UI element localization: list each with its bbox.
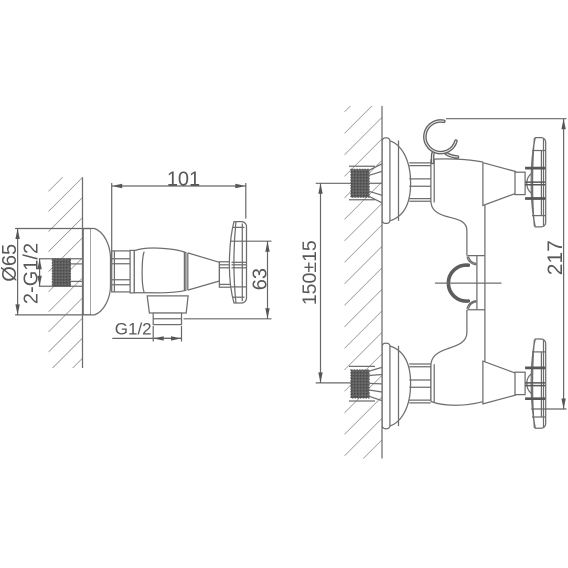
body/cone joint double line [184,253,187,291]
handle wheel (left view) [229,222,246,303]
union outline lines bottom [349,365,375,367]
top handle [483,138,546,227]
wall hatch (left view) [49,177,83,368]
body upper S-curve [431,201,467,256]
escutcheon cup line bottom [398,346,400,426]
dim G1/2 line with label leader [112,337,181,339]
dim O65 extension lines [15,228,91,230]
center boss top edge [468,255,485,257]
in-wall union top/bottom lines [39,258,83,260]
stem ribs top [409,162,430,164]
hook ring tube [425,121,456,153]
escutcheon dome (left view) [91,229,111,315]
dim 63 line [267,241,269,319]
valve body (left view) [134,248,186,293]
body left edge bottom [430,366,432,402]
svg-text:101: 101 [167,168,200,190]
in-wall pipe lines [71,263,85,265]
center boss inner line [476,256,478,310]
wheel bottom [531,339,546,428]
svg-text:150±15: 150±15 [299,240,321,305]
wheel top [531,138,546,227]
wheel face lines bottom [533,339,535,428]
handle hub (left view) [219,262,231,287]
wheel face lines top [533,138,535,227]
stem ribs bottom [409,363,430,365]
dim 217 extension lines [446,118,567,120]
svg-text:63: 63 [250,268,272,290]
escutcheon plate bottom [382,343,390,429]
dimension arrowheads [15,119,565,409]
hook stem tube [431,152,435,162]
dim 217 line [563,119,565,409]
body front curve line [142,252,144,293]
center boss bottom edge [468,309,485,311]
bump bottom fillet [467,301,476,309]
cone bottom [483,361,516,404]
outlet pipe G1/2 [153,313,181,325]
escutcheon cup line top [398,141,400,221]
body left inner line top [433,159,435,202]
svg-text:Ø65: Ø65 [0,244,21,282]
wall hatch (right view) [345,106,383,459]
body lower S-curve [431,310,467,402]
body fill silhouette [431,159,485,405]
eccentric union square bottom [351,370,369,398]
wheel face line [234,222,236,303]
dim 150 extension lines [316,182,351,184]
body top edge [431,159,483,162]
svg-text:217: 217 [544,240,567,275]
stem bottom [515,372,525,394]
outlet collar [147,296,188,313]
dim 2-G1/2 line [39,259,41,287]
handle cone (left view) [188,253,220,290]
dim 101 line [112,185,246,187]
escutcheon plate top [382,138,390,224]
wheel inner right line [241,224,243,302]
body right edge [484,163,486,401]
escutcheon dome top [390,141,411,221]
dim O65 line [17,229,19,315]
hub bands bottom [525,368,545,399]
dim 101 extension lines [111,183,113,262]
wall face line (left view) [82,177,84,368]
top valve assembly [349,138,431,224]
hub ellipse bottom [527,372,545,395]
body left inner line bottom [433,364,435,402]
escutcheon flange plate (left view) [83,229,91,315]
collar ring [130,250,134,293]
dim G1/2 extension lines [152,326,154,342]
eccentric union square top [351,169,369,197]
body bottom edge [431,402,483,406]
ribbed nipple [112,251,130,292]
hub ellipse top [527,172,545,195]
shower hook [425,121,458,163]
in-wall eccentric union (dark square) [52,259,70,287]
hub bands top [525,168,545,198]
dim 150 line [320,183,322,383]
union outline lines top [349,165,375,167]
centerline cross [435,282,502,284]
wall face line (right view) [381,106,383,459]
stem top [515,172,525,194]
mixer body (right view) [431,159,502,405]
body left edge top [430,159,432,201]
wheel hub cap lines [232,261,247,263]
bottom valve assembly (mirror of top) [349,343,431,429]
fan lines bottom [369,396,382,400]
wheel cap lines [233,226,245,228]
escutcheon dome bottom [390,346,411,426]
svg-text:G1/2: G1/2 [115,319,152,338]
hook tail tube [446,154,457,157]
bottom handle [483,339,546,428]
bump top fillet [467,257,476,265]
dim 63 extension lines [230,240,271,242]
outlet bump thick arc [448,265,468,301]
svg-text:2-G1/2: 2-G1/2 [21,243,43,304]
fan lines top [369,164,382,170]
cone top [483,163,516,206]
